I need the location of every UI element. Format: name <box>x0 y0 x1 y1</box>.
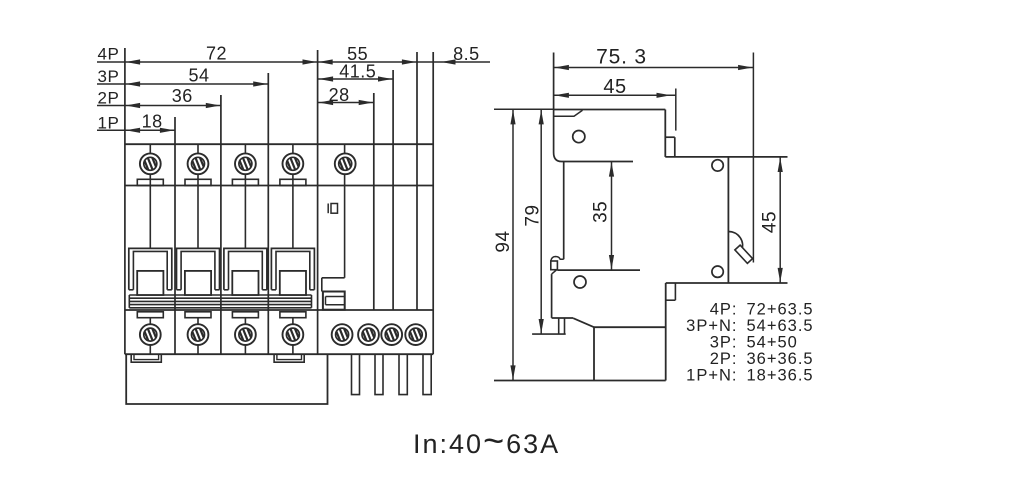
svg-text:2P: 2P <box>98 89 120 108</box>
svg-text:54+50: 54+50 <box>747 334 798 352</box>
svg-text:36: 36 <box>172 86 193 106</box>
svg-text:36+36.5: 36+36.5 <box>747 350 814 368</box>
svg-text:4P:: 4P: <box>710 301 738 319</box>
svg-text:8.5: 8.5 <box>453 44 480 64</box>
svg-text:4P: 4P <box>98 45 120 64</box>
svg-text:94: 94 <box>493 230 514 252</box>
svg-text:18+36.5: 18+36.5 <box>747 367 814 385</box>
svg-text:2P:: 2P: <box>710 350 738 368</box>
svg-text:1P: 1P <box>98 113 120 132</box>
svg-text:3P:: 3P: <box>710 334 738 352</box>
svg-text:45: 45 <box>760 211 781 233</box>
svg-text:1P+N:: 1P+N: <box>686 367 737 385</box>
svg-text:41.5: 41.5 <box>339 62 376 82</box>
svg-text:75. 3: 75. 3 <box>596 46 647 69</box>
svg-text:54: 54 <box>188 66 209 86</box>
svg-text:28: 28 <box>329 85 350 105</box>
svg-text:18: 18 <box>142 112 163 132</box>
svg-text:45: 45 <box>603 76 626 98</box>
svg-text:35: 35 <box>590 201 611 223</box>
svg-text:3P+N:: 3P+N: <box>686 317 737 335</box>
svg-text:72+63.5: 72+63.5 <box>747 301 814 319</box>
svg-text:3P: 3P <box>98 67 120 86</box>
svg-text:79: 79 <box>523 204 544 226</box>
svg-text:72: 72 <box>206 44 227 64</box>
svg-text:54+63.5: 54+63.5 <box>747 317 814 335</box>
